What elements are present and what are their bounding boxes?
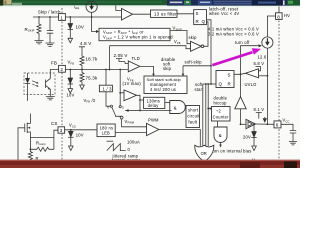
header green button (184, 0, 191, 4)
transistor output stage (263, 118, 267, 123)
svg-text:Q: Q (219, 82, 223, 87)
wire latch Q down (207, 20, 212, 66)
ground arrow for D1 (68, 38, 73, 43)
header dark segment (252, 0, 282, 6)
svg-text:circuit: circuit (187, 113, 200, 118)
svg-text:skip: skip (189, 35, 198, 40)
svg-text:(1V max): (1V max) (123, 81, 142, 86)
svg-text:Q: Q (202, 19, 206, 24)
wire OR input a (202, 84, 204, 146)
svg-text:Counter: Counter (213, 115, 230, 120)
comparator PWM (147, 123, 159, 135)
annotation magenta arrow (212, 52, 252, 65)
wire Vcc vertical (266, 48, 268, 124)
svg-text:S: S (196, 11, 199, 16)
svg-text:LEB: LEB (102, 131, 110, 136)
wire drop to formula box (92, 17, 96, 32)
zener at pin 3 (70, 129, 72, 131)
svg-text:VFB /3: VFB /3 (84, 98, 96, 104)
ground for Rskip (35, 41, 44, 44)
svg-text:12.6: 12.6 (258, 54, 267, 59)
svg-text:R: R (228, 82, 232, 87)
header fade row (0, 5, 300, 7)
box divide-by-2 counter (212, 107, 231, 122)
svg-text:4 ms/ 200 us: 4 ms/ 200 us (150, 87, 176, 92)
svg-text:Skip / latch: Skip / latch (38, 9, 61, 14)
svg-text:OR: OR (201, 151, 207, 156)
dashed IC boundary right (278, 21, 280, 161)
driver buffer (246, 119, 256, 128)
header mid blue blob (198, 1, 212, 5)
header navy segment (167, 0, 290, 6)
resistor Rsense (28, 149, 32, 161)
svg-text:3: 3 (60, 128, 63, 133)
wire LEB to comparator (115, 132, 146, 134)
header dotted checker (213, 0, 252, 6)
buffer amp (124, 90, 137, 101)
box soft start management (144, 76, 187, 94)
dashed IC boundary left (61, 8, 63, 160)
box LEB (97, 124, 115, 137)
ground arrow at pin2 zener (68, 89, 73, 94)
svg-text:1 / 3: 1 / 3 (103, 87, 113, 92)
switch soft-start select (110, 105, 112, 107)
svg-text:8: 8 (277, 14, 280, 19)
svg-text:4.8 V: 4.8 V (80, 41, 91, 46)
svg-text:75.3k: 75.3k (86, 75, 98, 80)
header SBO-DL text blob (169, 1, 183, 4)
comparator UVLO (246, 69, 259, 78)
footer dark patch (284, 162, 297, 169)
pin 8 (276, 13, 283, 20)
box 130ms delay (144, 97, 165, 108)
zener 20V (253, 124, 255, 131)
svg-text:short: short (188, 107, 199, 112)
svg-text:3.2 mA when Vcc > 0.6 V: 3.2 mA when Vcc > 0.6 V (208, 31, 259, 36)
box short circuit fault (186, 106, 200, 128)
svg-text:Iskip: Iskip (74, 5, 80, 10)
svg-text:1: 1 (122, 106, 124, 110)
pin 6 (274, 121, 281, 128)
svg-text:0: 0 (107, 105, 109, 109)
pin 3 (58, 127, 65, 133)
wire Q bus (203, 83, 216, 85)
op-amp TLD (128, 61, 140, 72)
transistor Q1 MOSFET (26, 123, 28, 134)
ground arrow for 20V zener (252, 146, 257, 151)
header light patch (12, 3, 22, 5)
resistor Rramp (30, 147, 54, 151)
phototransistor opto (45, 80, 47, 89)
driver amp triangle (235, 97, 246, 109)
header band background (0, 0, 300, 6)
ground arrow at pin3 zener (69, 146, 74, 151)
wire buffer input from FB rail (119, 70, 121, 106)
box 13us filter (151, 10, 178, 17)
svg-text:20V: 20V (243, 135, 251, 140)
wire comp to latch R (204, 22, 208, 47)
wire pin6 to cap (281, 124, 293, 130)
svg-text:turn on internal bias: turn on internal bias (211, 149, 252, 154)
pin 2 (59, 65, 66, 72)
svg-text:fault: fault (188, 119, 197, 124)
svg-text:÷2: ÷2 (216, 108, 221, 113)
wire pin2 to opto (50, 70, 58, 79)
svg-text:soft-skip: soft-skip (185, 60, 203, 65)
wire switch control arrow (140, 110, 172, 112)
svg-text:&: & (219, 133, 222, 138)
wire FB to VFB line (109, 46, 111, 70)
svg-text:hiccup: hiccup (214, 101, 228, 106)
wire turn-off control (241, 46, 259, 75)
wire skip rail (33, 16, 122, 18)
ground for opto (46, 97, 55, 100)
svg-text:5.8 V: 5.8 V (254, 61, 265, 66)
svg-text:6: 6 (276, 123, 279, 128)
svg-text:TLD: TLD (132, 56, 140, 61)
svg-text:13 us filter: 13 us filter (154, 11, 177, 16)
comparator skip U3 (191, 41, 202, 51)
svg-text:FB: FB (51, 60, 57, 65)
LED opto (27, 73, 29, 78)
ground for Cskip (46, 43, 55, 46)
svg-text:skip: skip (163, 66, 172, 71)
wire 1/3 output (106, 92, 110, 106)
svg-text:100uA: 100uA (127, 140, 140, 145)
current source Iskip (86, 1, 97, 12)
formula box Vskip (99, 28, 170, 40)
svg-text:2.05 V: 2.05 V (114, 53, 128, 58)
svg-text:HV: HV (284, 13, 290, 18)
svg-text:turn off: turn off (235, 40, 250, 45)
svg-text:PWM: PWM (148, 117, 159, 122)
wire counter input arrow (207, 108, 209, 110)
wire opto stub (27, 95, 29, 101)
svg-text:18.7k: 18.7k (86, 56, 98, 61)
terminal VPWM (120, 116, 123, 119)
wire driver to Vcc rail (256, 123, 275, 125)
net soft-skip (183, 65, 211, 67)
header left dark corner (0, 0, 3, 6)
svg-text:10V: 10V (76, 25, 85, 30)
header right green end (287, 0, 300, 6)
resistor 75.3k (80, 70, 84, 86)
net VSKIP (170, 31, 191, 44)
wire OR input c (207, 84, 209, 146)
resistor 18.7k (80, 50, 84, 69)
optocoupler dashed box (24, 73, 55, 95)
zener D1 10V at pin1 (69, 17, 71, 24)
wire UVLO inputs (259, 67, 261, 71)
AND gate turn-on (214, 127, 227, 143)
net VFB rail (65, 69, 127, 71)
comparator skip filter input (116, 6, 122, 11)
ground arrow for 75.3k (80, 85, 85, 90)
wire source top link (30, 137, 54, 139)
ground for cap (289, 142, 297, 145)
svg-text:2: 2 (60, 67, 63, 72)
junction node on skip rail (38, 16, 40, 18)
svg-text:S: S (228, 73, 231, 78)
latch U4 main (216, 71, 234, 88)
svg-text:&: & (174, 105, 177, 110)
wire comparator to filter (133, 13, 151, 15)
svg-text:10V: 10V (67, 93, 75, 98)
wire CS external (54, 130, 58, 149)
OR gate (195, 145, 214, 162)
svg-text:UVLO: UVLO (245, 82, 257, 87)
driver inner glyph (248, 122, 253, 127)
svg-text:delay: delay (148, 103, 160, 108)
latch U2 S/R (194, 10, 207, 25)
svg-text:CS: CS (51, 121, 58, 126)
wire filter to latch (177, 13, 194, 15)
header band light stripe (12, 1, 162, 3)
wire buffer out to delay box (137, 95, 141, 110)
svg-text:VSKIP = 1.2 V when pin 1 is op: VSKIP = 1.2 V when pin 1 is opened (103, 35, 173, 41)
capacitor Vcc (290, 130, 296, 133)
wire latch S to UVLO (234, 73, 246, 74)
svg-text:1: 1 (60, 15, 63, 20)
svg-text:R: R (196, 19, 200, 24)
resistor Rskip (37, 17, 41, 41)
svg-text:8.1 V: 8.1 V (254, 107, 265, 112)
wire TLD out (140, 66, 154, 73)
wire PWM out to OR (159, 130, 201, 147)
net VFB long wire (110, 46, 191, 49)
svg-text:10V: 10V (76, 133, 84, 138)
current source HV startup (262, 37, 273, 48)
wire OR input b (205, 84, 207, 146)
pin 1 (59, 14, 66, 21)
capacitor Cskip (49, 17, 51, 31)
wire HV pin to source (267, 16, 275, 37)
footer red band (0, 160, 300, 168)
AND gate fault (170, 101, 185, 114)
box 1/3 divider (99, 85, 112, 92)
wire 1/3 input (105, 70, 107, 86)
svg-text:when Vcc < 4V: when Vcc < 4V (209, 11, 239, 16)
zener at pin 2 (69, 69, 71, 71)
header tan icon (4, 0, 12, 5)
wire CS to LEB (65, 129, 97, 131)
op-amp comparator U1 (122, 8, 133, 20)
